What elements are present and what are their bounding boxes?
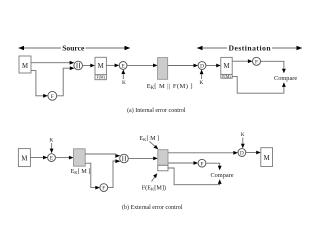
svg-text:Compare: Compare	[274, 75, 297, 82]
svg-text:M: M	[98, 63, 104, 70]
wire transmitted block to F right (b)	[168, 161, 198, 165]
svg-text:Compare: Compare	[210, 172, 233, 179]
destination span arrow	[197, 44, 302, 53]
ciphertext block EK[M] (b)	[74, 149, 86, 166]
wire F2 to compare (a)	[261, 61, 286, 73]
wire block down to F (b)	[85, 163, 100, 189]
wire concat to block M/F(M) (a)	[82, 64, 95, 68]
key K into D (a)	[199, 70, 203, 87]
svg-text:E: E	[122, 63, 125, 69]
wire E to ciphertext block (a)	[127, 64, 158, 68]
svg-text:F: F	[201, 161, 204, 167]
svg-text:K: K	[49, 138, 53, 144]
transmitted block F part (b)	[158, 165, 168, 171]
wire F1 to concat (a)	[57, 66, 75, 96]
compare (a)	[274, 75, 297, 82]
svg-text:Destination: Destination	[228, 44, 271, 53]
svg-text:EK[ M || F(M) ]: EK[ M || F(M) ]	[147, 83, 193, 91]
svg-text:M: M	[264, 155, 270, 162]
block M destination (b)	[261, 148, 273, 167]
svg-text:M: M	[21, 156, 27, 163]
svg-text:F: F	[102, 186, 105, 192]
svg-text:K: K	[199, 80, 203, 86]
block M source (a)	[19, 56, 31, 73]
label EK[ M ] under block (b)	[71, 168, 91, 175]
svg-text:K: K	[241, 132, 245, 138]
cipher E (b)	[48, 154, 56, 162]
label F(EK[M]) below (b)	[142, 173, 166, 191]
wire receiver F(M) to compare (a)	[232, 76, 286, 93]
function F2 (a)	[253, 57, 261, 65]
block M over F(M) sender (a)	[95, 57, 106, 79]
block M over F(M) receiver (a)	[221, 57, 232, 79]
svg-text:F: F	[51, 94, 54, 100]
wire M down to F1 (a)	[31, 71, 48, 98]
wire F part to compare (b)	[168, 168, 222, 185]
wire D to block M/F(M) receiver (a)	[206, 64, 221, 68]
svg-text:D: D	[200, 64, 204, 70]
svg-text:D: D	[240, 151, 244, 157]
function F1 (a)	[48, 91, 57, 100]
decipher D (b)	[238, 149, 246, 157]
svg-text:E: E	[50, 156, 53, 162]
svg-text:K: K	[122, 80, 126, 86]
wire D to M (b)	[246, 151, 261, 155]
block M source (b)	[18, 149, 30, 167]
svg-text:Source: Source	[62, 44, 85, 53]
decipher D (a)	[198, 62, 206, 70]
wire F to concat (b)	[108, 159, 121, 187]
svg-text:F(M): F(M)	[96, 75, 105, 80]
caption (a)	[127, 107, 186, 114]
svg-text:M: M	[22, 63, 28, 70]
caption (b)	[122, 204, 183, 211]
key K into E (a)	[121, 69, 126, 86]
svg-text:F(M): F(M)	[222, 74, 231, 79]
svg-text:M: M	[223, 63, 229, 70]
function F right (b)	[198, 159, 206, 167]
wire transmitted block to D (b)	[168, 151, 238, 155]
function F lower (b)	[100, 184, 108, 192]
wire receiver M to F2 (a)	[232, 59, 252, 63]
wire E to ciphertext block (b)	[55, 156, 73, 160]
key K into D (b)	[241, 132, 245, 148]
wire M to E (b)	[30, 156, 47, 160]
cipher E (a)	[119, 62, 127, 70]
svg-text:F(EK[M]): F(EK[M])	[142, 184, 166, 191]
label EK[ M || F(M) ] (a)	[147, 83, 193, 91]
svg-text:(a) Internal error control: (a) Internal error control	[127, 107, 186, 114]
svg-text:(b) External error control: (b) External error control	[122, 204, 183, 211]
transmitted block gray part (b)	[158, 150, 168, 166]
wire F right to compare (b)	[206, 163, 222, 170]
concat junction (a)	[74, 61, 83, 70]
label EK[ M ] above (b)	[139, 135, 159, 150]
svg-text:EK[ M ]: EK[ M ]	[71, 168, 91, 175]
wire concat to transmitted block (b)	[128, 157, 158, 161]
compare (b)	[210, 172, 233, 179]
svg-text:F: F	[255, 59, 258, 65]
wire M to concat (a)	[31, 61, 74, 65]
source span arrow	[19, 44, 131, 53]
wire block to E (a)	[106, 64, 119, 68]
ciphertext block EK[M||F(M)] (a)	[158, 58, 168, 80]
svg-text:EK[ M ]: EK[ M ]	[139, 135, 159, 142]
wire block top to concat (b)	[85, 154, 120, 158]
concat junction (b)	[120, 154, 129, 163]
wire ciphertext block to D (a)	[168, 64, 198, 68]
key K into E (b)	[49, 138, 53, 154]
